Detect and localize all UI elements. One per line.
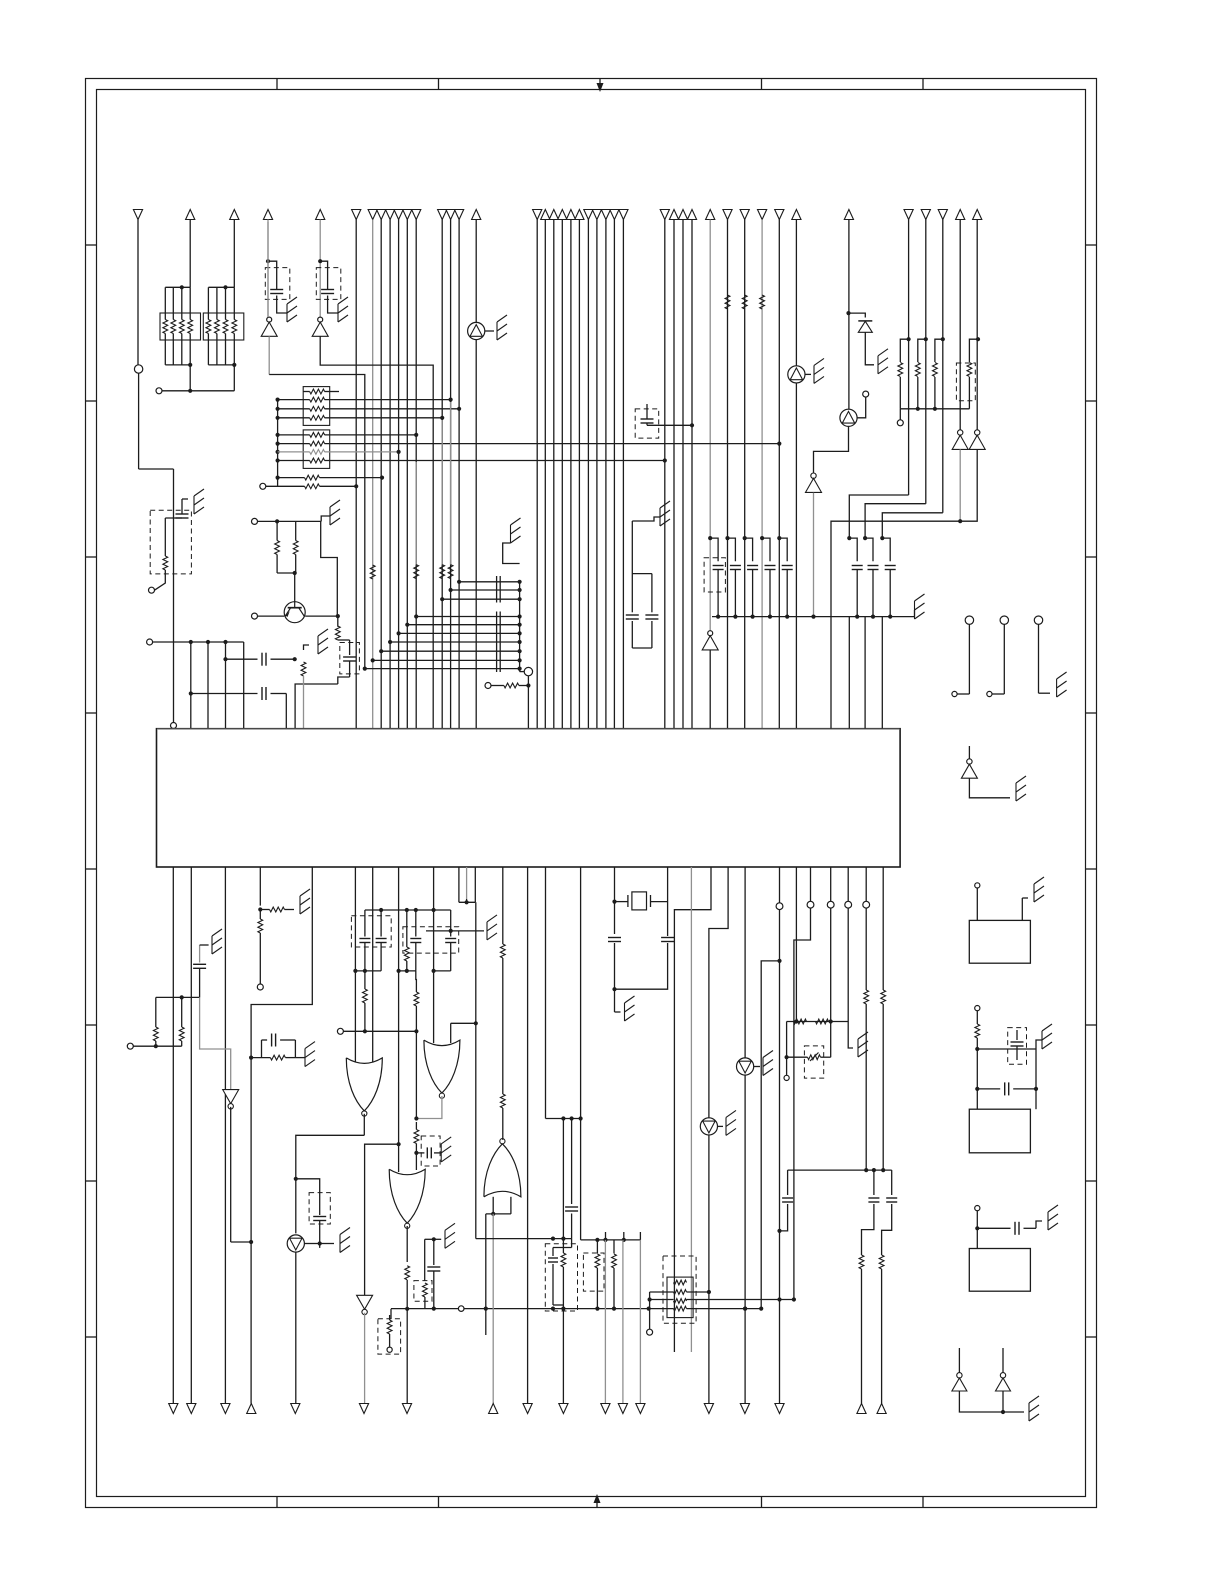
wire CN3 caps (977, 1221, 1042, 1228)
transistor Q4 circled (287, 1235, 304, 1252)
capacitor C7 dashed box (704, 558, 725, 592)
wire C6 (647, 404, 694, 427)
wire RC1 row4 (649, 1307, 762, 1311)
ground G2 (338, 297, 348, 322)
resistor R29 (251, 1055, 295, 1060)
wire P3 stair (829, 867, 833, 1057)
wire U8c input1 (365, 867, 401, 1295)
wire P1 stair (759, 867, 782, 1311)
terminal circle CN2 in (975, 1006, 980, 1011)
wire P2 stair (794, 867, 811, 1300)
wire P4 stair (847, 867, 849, 1022)
capacitor C28 (548, 1248, 558, 1306)
resistor network RA2 top wires (208, 285, 234, 319)
wire U5 input (969, 778, 1010, 797)
capacitor C31 (882, 1170, 898, 1255)
buffer U1b (312, 317, 328, 336)
ground G17 (300, 889, 310, 914)
terminal arrow bottom 14 (618, 1404, 627, 1414)
capacitor C15 dashed box (1008, 1028, 1027, 1065)
wire net N rail (343, 1029, 418, 1033)
wire Q6 down (707, 1135, 711, 1404)
wire staircase 2 (865, 504, 926, 538)
resistor R32 (414, 992, 419, 1031)
wire RT rail (787, 1021, 849, 1023)
wire IC pin to arrow 3 (224, 867, 226, 1404)
resistor R27 (153, 997, 158, 1046)
wire C18 chain (156, 995, 200, 999)
wire pin6 drop (285, 694, 287, 729)
transistor Q3 circled (788, 366, 805, 383)
wire xtal right (612, 867, 674, 991)
wire R14 (293, 521, 297, 575)
resistor pack RB1 box (303, 387, 330, 426)
ground G25 (660, 501, 670, 526)
ground G27 (726, 1110, 736, 1135)
resistor R34 (387, 1315, 392, 1347)
wire xtal gnd (615, 989, 621, 1012)
terminal arrow bottom 4 (247, 1404, 256, 1414)
wire 605 cluster top (581, 1238, 641, 1242)
ground G15 (1048, 1205, 1058, 1230)
capacitor bank2 dashed box A (351, 916, 391, 947)
wire arrow 744 (744, 1309, 746, 1404)
wire long rail 1308 (391, 1307, 651, 1311)
wire U1b out (320, 336, 433, 728)
capacitor C2 (321, 290, 334, 294)
resistor network RA1 box (160, 313, 201, 340)
resistor R5 (725, 295, 730, 309)
terminal circle net O (387, 1347, 392, 1352)
resistor pack RC1 dashed box (663, 1256, 696, 1323)
wire C1 tap (266, 259, 277, 289)
wire U8c out (405, 1226, 410, 1311)
wire RA1 to node (188, 365, 192, 393)
wire C32 link (632, 573, 652, 575)
capacitor C29 (608, 938, 621, 990)
capacitor C15 (1011, 1030, 1024, 1060)
wire C2 tap (318, 259, 328, 289)
ground G22 (445, 1223, 455, 1248)
wire bank2B bottom rail2 (432, 969, 451, 973)
wire bank2A top rail (365, 908, 451, 912)
capacitor C5 (262, 687, 266, 700)
terminal circle net I (485, 683, 491, 689)
terminal circle net L (257, 984, 263, 990)
wire pin312 jog (249, 867, 312, 1404)
resistor R31 (404, 910, 409, 971)
capacitor C30 (862, 1170, 880, 1255)
capacitor C18 (193, 945, 206, 997)
wire Q6 gnd (718, 1125, 724, 1127)
ground G11 (1057, 672, 1067, 697)
resistor R17 (504, 683, 519, 688)
NOR gate U8c (389, 1169, 425, 1228)
resistor network RA2 resistors (206, 320, 237, 334)
wire pin580 (580, 867, 582, 1240)
terminal circle net N (337, 1028, 343, 1034)
wire R20 rail (900, 407, 969, 420)
capacitor C6 dashed box (635, 409, 659, 438)
capacitor C32 (626, 521, 652, 648)
wire 563 vert (562, 1119, 564, 1239)
resistor R37 (561, 1239, 566, 1305)
terminal arrow bottom 10 (559, 1404, 568, 1414)
wire CT1 link (338, 640, 350, 684)
wire 563 down (562, 1305, 564, 1404)
resistor R6 (742, 295, 747, 309)
resistor pack RC1 resistors (674, 1280, 687, 1311)
wire U8b out (414, 1096, 442, 1121)
wire pin jog 728 (709, 867, 728, 1118)
ground G3 (497, 315, 507, 340)
wire C18 top (200, 944, 209, 946)
terminal circle net B (156, 388, 162, 394)
wire pin4 drop (225, 642, 227, 729)
border tick marks (86, 79, 1097, 1508)
wire G6 lead (304, 645, 310, 650)
connector CN3 box (969, 1249, 1030, 1292)
resistor R19 (440, 420, 445, 579)
wire U8d in drop (492, 1214, 494, 1404)
wire net E rail (153, 640, 244, 644)
ground G16 (1029, 1396, 1039, 1421)
buffer U4 (806, 473, 822, 492)
capacitor C1 (270, 290, 283, 294)
resistor R23 dashed box (956, 363, 975, 401)
wire U3 outputs merge (831, 449, 977, 728)
capacitor C33 (645, 574, 658, 648)
wire G7 lead (503, 543, 520, 564)
border bottom center arrow (594, 1494, 601, 1508)
switch S1 (952, 616, 974, 697)
terminal circle P4 (845, 901, 852, 908)
wire Q2 top junction (846, 311, 865, 318)
NOR gate U8b (424, 1040, 460, 1098)
wire pin796 down (794, 867, 798, 1024)
capacitor C21 (359, 910, 370, 971)
wire Q1 base (258, 615, 285, 617)
wire bank2B bottom rail1 (397, 969, 416, 973)
resistor R34 dashed box (378, 1319, 401, 1354)
wire CN1 pin1 (976, 888, 978, 920)
wire X2 loop (459, 867, 475, 904)
wire bank2A bottom rail (353, 969, 381, 973)
resistor R15 (335, 626, 340, 640)
wire Q2 emitter (857, 397, 866, 418)
wire gray 692 (690, 867, 692, 1352)
resistor network RA2 bottom wires (208, 334, 236, 368)
capacitor C1 dashed box (265, 268, 290, 300)
terminal arrow bottom 2 (187, 1404, 196, 1414)
filter FL1 dashed box (545, 1244, 577, 1311)
ground G10 (814, 358, 824, 383)
wire RB1 row1 (303, 391, 339, 393)
wire G8 lead (914, 610, 916, 617)
wire FL1 links (553, 1239, 572, 1305)
terminal circle on net A (134, 365, 142, 373)
buffer U11 (702, 631, 718, 729)
ground G12 (1016, 776, 1026, 801)
wire R12 bottom (155, 570, 166, 590)
wire gray 623 (622, 1240, 624, 1404)
ground G21 (441, 1137, 451, 1162)
capacitor C3 (176, 514, 189, 518)
wire Q4 node (304, 1241, 334, 1245)
resistor R28 (179, 997, 184, 1046)
resistor R12 (163, 556, 168, 570)
ground G4 (194, 489, 204, 514)
wire Q5 down (743, 1075, 747, 1311)
border top center arrow (597, 79, 604, 93)
wire Q3 ground (805, 373, 811, 375)
capacitor C4 (262, 653, 266, 666)
wire X2 pin bottom2 (474, 902, 478, 1238)
terminal arrows top row (133, 210, 981, 220)
resistor R16 (301, 662, 306, 676)
capacitor bank2 dashed box B (403, 927, 459, 953)
transistor Q1 (284, 602, 305, 623)
diode D1 (858, 321, 872, 332)
resistor R41 (879, 1255, 884, 1404)
NOR gate U8d (484, 1139, 521, 1197)
terminal circle P3 (827, 901, 834, 908)
inverter U3a (952, 430, 968, 450)
ground G20 (340, 1228, 350, 1253)
resistor R7 (760, 295, 765, 309)
wire 623a (623, 1232, 625, 1240)
terminal arrow bottom 7 (402, 1404, 411, 1414)
inverter U6a (952, 1348, 967, 1391)
wire 605a (605, 1232, 607, 1240)
wire Q5 gnd (754, 1066, 760, 1068)
capacitor C17 (1015, 1222, 1019, 1235)
capacitor C27 (565, 1119, 578, 1239)
capacitor row C7-C11 (708, 536, 793, 619)
wire RB1 row2 (278, 398, 453, 402)
wire U1a in (267, 222, 269, 317)
wire net A to C3 (173, 469, 175, 723)
resistor pack RB2 resistors (310, 433, 325, 463)
terminal arrow bottom 1 (169, 1404, 178, 1414)
terminal circle net R (647, 1329, 653, 1335)
wire Q4 down (295, 1252, 297, 1403)
wire net M rail (133, 1044, 181, 1048)
resistor R13 (275, 541, 280, 555)
terminal arrow bottom 5 (291, 1404, 300, 1414)
ground G23 (625, 996, 635, 1021)
wire RC1 circle (649, 1292, 651, 1329)
ground G14 (1042, 1024, 1052, 1049)
resistor network RA1 resistors (163, 320, 193, 334)
terminal arrow bottom 15 (636, 1404, 645, 1414)
wire pin3 drop (207, 642, 209, 729)
terminal arrow bottom 17 (740, 1404, 749, 1414)
wire IC pin to arrow 2 (190, 867, 192, 1404)
buffer U1a (261, 317, 277, 336)
wire RB1 row4 (278, 416, 445, 420)
wire arrow407 (406, 1309, 408, 1404)
transistor Q6 circled (700, 1118, 717, 1135)
capacitor bank bars (497, 576, 501, 672)
wire Q1 emitter (305, 614, 340, 627)
terminal circle net Q (784, 1075, 789, 1080)
ground G19 (305, 1042, 315, 1067)
wire R32 down (415, 1031, 417, 1118)
wire U9 out (364, 1313, 366, 1404)
border outer frame (86, 79, 1097, 1508)
capacitor bank taps (363, 580, 522, 671)
wire RB1 row3 (278, 407, 462, 411)
wire cap group to IC (849, 617, 882, 729)
terminal circle big net H (520, 667, 533, 675)
capacitor C16 (1005, 1082, 1009, 1095)
wire 640a (639, 1232, 641, 1240)
wire P6 chain (881, 867, 886, 1172)
wire Q2 down (814, 426, 849, 473)
wire net F to emitter (321, 521, 338, 616)
ground G5 (330, 500, 340, 525)
wire RB2 row1 (278, 433, 419, 437)
transistor Q2 circled (840, 409, 857, 426)
wire X2 jog to gate (451, 1023, 476, 1043)
wire R11 (266, 484, 359, 488)
wire R17 (491, 683, 531, 687)
inverter U6b (996, 1348, 1011, 1391)
capacitor C22 (376, 910, 387, 971)
trimmer RT1 dashed box (804, 1046, 823, 1078)
capacitor C20 (313, 1192, 326, 1248)
resistor R23 (967, 337, 980, 409)
ground G7 (511, 518, 521, 543)
wire RC1 row3 (648, 1297, 797, 1301)
wire pin745 (744, 867, 746, 1058)
wire CN1 pin2 (1022, 898, 1028, 920)
wire RB2 row4 (278, 458, 667, 462)
resistor R30 (363, 971, 368, 1034)
wire R13 (275, 519, 295, 573)
wire net A lower (139, 373, 174, 469)
wire emitter chain down (295, 684, 338, 729)
transistor Q5 circled (737, 1058, 754, 1075)
terminal circle P1 (776, 903, 783, 910)
crystal X1 (615, 892, 668, 910)
wire U8a inputs (355, 867, 372, 1062)
ground G1 (287, 297, 297, 322)
wire IC pin to arrow 1 (172, 867, 174, 1404)
terminal circle on IC pin1 (171, 723, 177, 729)
inverter U7 (223, 1090, 254, 1245)
connector CN2 box (969, 1109, 1030, 1153)
ground G9 (878, 349, 888, 374)
wire U8b input1 (432, 867, 436, 1043)
terminal arrow bottom 8 (489, 1404, 498, 1414)
wire net H (527, 676, 529, 729)
wire CN3 pin1 (975, 1211, 979, 1249)
terminal arrow bottom 9 (523, 1404, 532, 1414)
capacitor C19 cluster (262, 1034, 296, 1058)
terminal circle P2 (807, 901, 814, 908)
resistor R24 (975, 1011, 980, 1049)
wire RC1 row2 (650, 1291, 709, 1293)
switch S2 (987, 616, 1009, 697)
trimmer capacitor CT1 (343, 640, 356, 677)
wire U4 out (811, 493, 815, 619)
resistor R25 (258, 910, 263, 985)
terminal arrow bottom 13 (601, 1404, 610, 1414)
trimmer RT1 (808, 1053, 821, 1062)
wire gnd spur (426, 929, 484, 933)
ground G24 (858, 1032, 868, 1057)
capacitor C24 (445, 910, 456, 971)
wire U2 to ground (485, 330, 494, 332)
capacitor C6 (641, 419, 654, 423)
wire U2 down (475, 340, 477, 729)
capacitor C25 (414, 1147, 441, 1158)
inverter U9 (357, 1295, 373, 1314)
wire G25 lead (632, 517, 660, 521)
inverter U3b (969, 430, 985, 450)
wire RB bus left (276, 398, 280, 487)
resistor R35 dashed box (414, 1281, 432, 1302)
ground G6 (318, 629, 328, 654)
IC U10 main block (157, 729, 901, 867)
ground G28 (487, 915, 497, 940)
wire rail 1238 (476, 1237, 572, 1241)
ground G13 (1034, 877, 1044, 902)
wire RT gnd (848, 1022, 853, 1049)
driver U2 circled (468, 322, 485, 339)
resistor R36 (500, 867, 505, 1140)
wire C1 to ground (277, 296, 287, 314)
resistor R26 (270, 907, 285, 912)
wire U6 merge (959, 1391, 1024, 1414)
terminal circle net M (127, 1043, 133, 1049)
wire staircase 1 (849, 495, 908, 538)
wires from top terminals (138, 220, 977, 729)
capacitor C25 dashed box (421, 1136, 440, 1166)
terminal circle net E (147, 639, 153, 645)
terminal arrow bottom 3 (221, 1404, 230, 1414)
ground G26 (763, 1051, 773, 1076)
wire net Q (785, 1022, 831, 1076)
RC filter dashed box (150, 510, 191, 574)
wire R10 (278, 476, 385, 480)
NOR gate U8a (346, 1058, 382, 1116)
resistor R42 dashed box (583, 1253, 604, 1291)
resistor R39 (816, 1019, 829, 1024)
resistor network RA1 top wires (165, 285, 190, 319)
capacitor C34 (777, 1170, 793, 1233)
wire C18 down (200, 997, 231, 1089)
capacitor C23 (410, 910, 421, 971)
wire xtal left (612, 867, 616, 934)
wire RB2 row3 (278, 450, 401, 454)
wire CN2 caps (975, 1049, 1038, 1109)
terminal arrow bottom 6 (359, 1404, 368, 1414)
wire pin jog 711 (674, 867, 711, 1352)
resistor R19b (448, 402, 453, 579)
wire G14 lead (1036, 1040, 1042, 1049)
capacitor group C12-C14 (847, 536, 896, 619)
resistor pack RC1 box (667, 1277, 693, 1318)
terminal circle net K (897, 420, 903, 426)
resistor pack RB1 resistors (310, 389, 325, 420)
resistor R17b (370, 565, 375, 579)
resistor R38 (794, 1019, 807, 1024)
wire C3 top (182, 499, 188, 514)
wire P5 chain (864, 867, 869, 1172)
